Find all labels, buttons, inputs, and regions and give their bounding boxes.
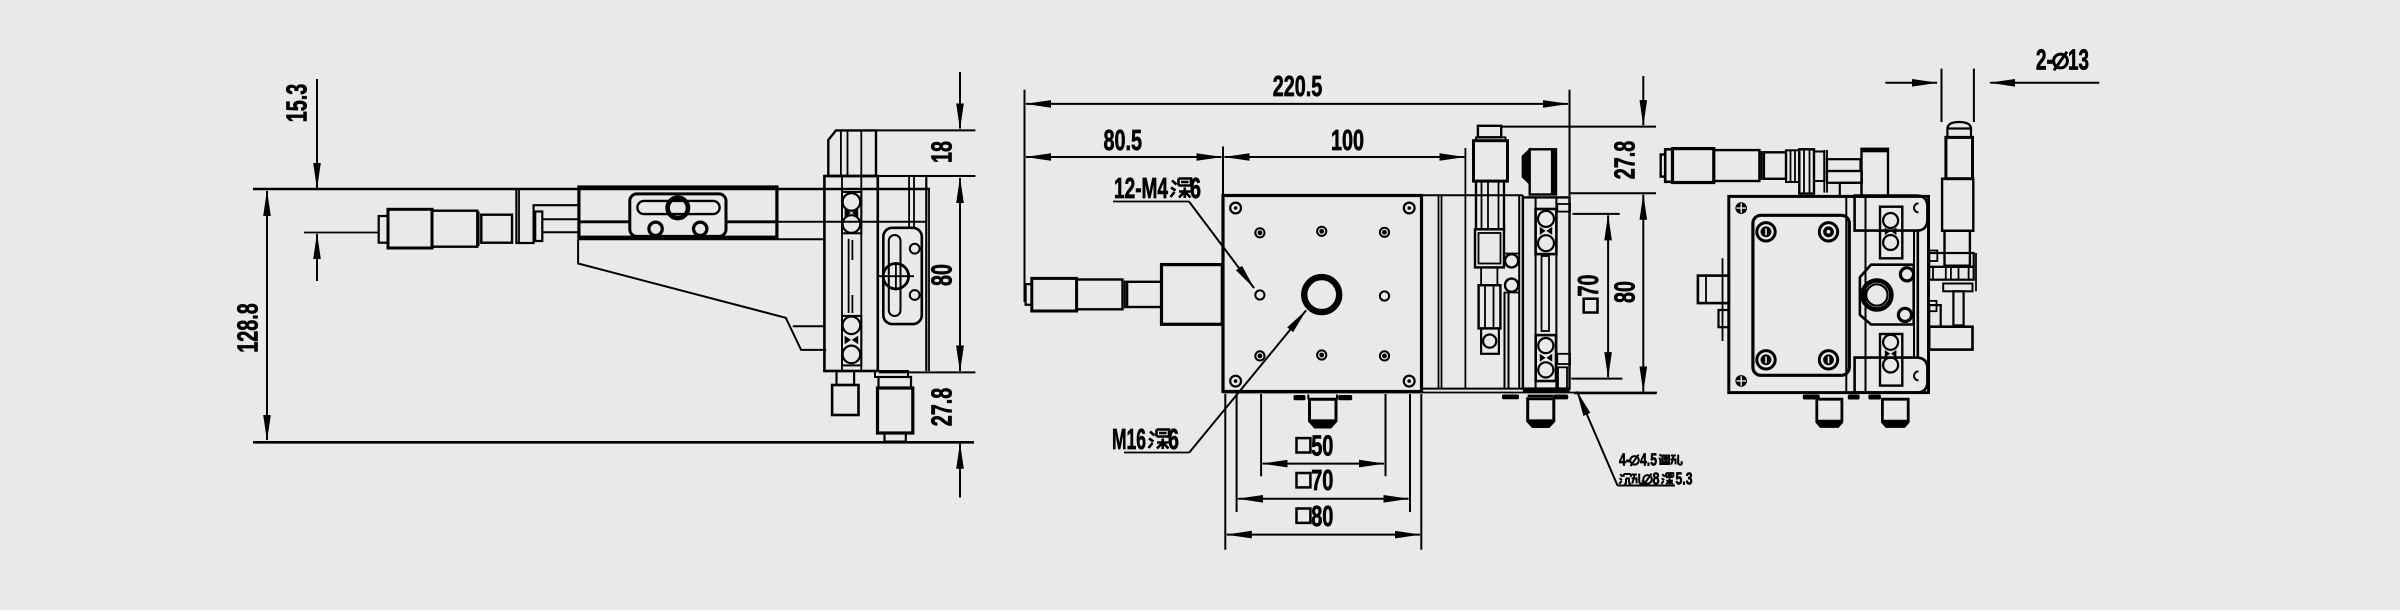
svg-text:M16: M16 [1112,424,1146,456]
M4 hole r1c3 [1380,228,1389,237]
spindle collar [535,212,542,242]
inner right wall pair [1913,231,1915,357]
leader M16 line [1189,311,1306,453]
rail block [579,187,777,237]
side bracket [1504,254,1519,293]
corner screw TL [1230,203,1241,214]
bearing ball m3 [1538,338,1553,353]
dim sq70 mid line [1607,215,1609,377]
vertical micrometer collar [1475,229,1504,267]
right side tab lower [1929,301,1937,311]
svg-text:70: 70 [1573,275,1605,297]
M4 hole r1c2 [1317,227,1326,236]
M16 center hole [1304,277,1339,312]
vertical micrometer spindle [1480,267,1482,285]
bottom micrometer neck [879,377,912,388]
leader 4-dia4.5 [1577,392,1618,486]
dim sq70 ext left [1236,394,1238,512]
micrometer mount block [1162,265,1223,325]
vertical micrometer barrel [1942,179,1973,231]
dim sq50 ext right [1385,394,1387,476]
carriage slot [637,201,719,214]
knob plate slot [889,235,901,316]
bearing ball top 1 [843,193,861,211]
corner screw TR [1404,203,1415,214]
vertical micrometer thimble [1474,141,1508,181]
housing foot [1528,399,1554,427]
svg-text:13: 13 [2068,45,2089,77]
left small tab [1719,310,1729,327]
right tab top [1557,204,1570,212]
dim sq80 [1227,534,1420,536]
leader 12-M4 line [1189,202,1254,289]
left foot knob [1817,399,1842,426]
side bracket walls [1504,292,1506,389]
left foot neck [837,371,855,385]
vertical micrometer barrel lower [1945,231,1970,266]
bearing ball m2 [1538,235,1554,251]
dim sq50 ext left [1260,394,1262,476]
bearing block top [842,192,861,233]
dim sq70 mid ext top [1573,213,1620,215]
dim ext line plate left [1222,147,1224,196]
base block inner edge pair [1438,195,1440,388]
micrometer ring [1124,281,1126,309]
spindle bar lower [1827,171,1862,183]
bearing separator m2 [1540,354,1552,362]
svg-text:4.5: 4.5 [1640,450,1657,470]
column left edges [1845,196,1847,392]
dimension 15.3 [316,79,318,281]
leader M16 underline [1124,452,1189,454]
right foot knob [1882,399,1908,426]
dim sq80 ext right [1420,394,1422,550]
bearing ball bottom 1 [843,317,861,335]
bearing separator r [1885,228,1897,236]
body square [1729,196,1929,392]
svg-text:128.8: 128.8 [232,303,264,353]
bearing ball r3 [1883,335,1898,350]
mount post [1862,149,1889,197]
svg-text:27.8: 27.8 [926,388,958,427]
bearing square top [1880,207,1902,259]
clamp edge pair [1823,150,1825,193]
svg-text:2-: 2- [2036,45,2053,77]
housing foot nub [1553,395,1568,400]
svg-text:50: 50 [1311,430,1333,462]
dim 80 mid line [1642,195,1644,392]
housing bottom band [1523,389,1570,393]
dim 220.5 line [1026,103,1568,105]
cjk shen 1 [1171,179,1192,199]
knurl row [1929,267,1974,280]
spindle housing verticals [908,176,910,228]
bearing ball m4 [1538,362,1553,377]
boss screw top [1900,268,1913,281]
rail inner line left [579,220,630,223]
clevis pin circle [1483,335,1496,348]
bearing square bottom [1880,334,1902,386]
svg-text:80: 80 [1609,281,1641,303]
dim line left [1885,82,1937,84]
dim 80 mid ext bottom [1574,392,1657,394]
M4 hole r1c1 [1255,228,1264,237]
plate screw 4 [1819,351,1837,369]
dim 27.8 mid arrow top [1642,76,1644,125]
svg-text:6: 6 [1168,424,1179,456]
bracket top line [578,238,825,240]
micrometer barrel [432,211,477,247]
clevis block [1481,328,1499,353]
micrometer thimble [1032,278,1077,311]
bracket inner line [793,325,825,327]
top micrometer barrel [1714,150,1760,181]
corner screw BL [1230,376,1241,387]
housing rail right [1555,197,1557,388]
bearing ball top 2 [843,215,861,233]
housing foot neck [1528,395,1554,397]
base block bottom edge [1422,388,1523,390]
carriage ring [668,198,688,218]
base block left edge / ext 100 [1464,148,1466,389]
bottom micrometer body [878,388,913,433]
L bracket small [1929,305,1941,327]
dim 220.5 ext right [1569,90,1571,196]
rail inner line right [726,220,777,223]
micrometer sleeve [481,215,512,243]
dim 27.8 extension [879,371,975,373]
top micrometer thimble [1673,149,1714,183]
knob plate [883,228,922,324]
dim sq70 mid ext bottom [1571,378,1622,380]
dim 18 extension bottom [855,175,975,177]
dim 18 arrow top [959,72,961,129]
dim 27.8 arrow top [959,325,961,371]
top plate line [777,221,926,223]
cjk shen 2 [1149,430,1170,450]
bearing ball r4 [1883,358,1898,373]
plate foot [1310,399,1337,427]
bearing ball r2 [1883,235,1898,250]
bearing separator top [845,209,859,218]
carriage screw left [649,222,662,235]
top clamp block [1855,196,1928,231]
foot nub 1 [1803,395,1820,400]
mount post cap [1862,149,1889,153]
vertical micrometer lip [1476,137,1506,140]
top clamp middle [1530,149,1556,194]
ext line left [1941,69,1943,122]
stage plate [1223,196,1422,392]
plate foot neck [1308,398,1337,400]
corner screw BL [1735,375,1747,387]
label counterbore line2 [1619,474,1631,484]
micrometer thimble [388,209,432,248]
knob plate screw bottom [910,290,920,300]
dim sq80 ext left [1224,394,1226,550]
left foot [832,385,858,415]
knob plate screw top [910,244,920,254]
corner screw TL [1735,202,1747,214]
dim 80.5 [1026,156,1222,158]
dim sq50 [1263,463,1384,465]
hex boss plate [1860,265,1914,325]
bearing ball r1 [1883,213,1898,228]
right edge piece [1975,253,1977,291]
svg-text:70: 70 [1311,465,1333,497]
dim sq70 [1238,498,1408,500]
svg-text:220.5: 220.5 [1273,71,1323,103]
bearing block bottom [842,316,861,366]
svg-text:15.3: 15.3 [281,84,313,123]
inner plate [1753,215,1849,375]
housing left edge pair [1518,195,1520,388]
right tab bottom [1557,354,1570,364]
carriage screw right [694,222,707,235]
bearing ball bottom 2 [843,346,861,364]
svg-text:80.5: 80.5 [1104,125,1143,157]
bearing housing [1523,197,1570,388]
ext line right [1973,69,1975,122]
dim 27.8 mid ext bottom [1570,192,1657,194]
top clamp [828,130,876,176]
bearing separator m [1540,227,1552,235]
bottom clamp block [1855,358,1928,393]
bearing slot middle [848,239,850,313]
vertical micrometer cap [1478,126,1501,138]
bracket outline [578,239,826,350]
spindle lines [542,218,579,220]
dim sq70 ext right [1409,394,1411,512]
M4 hole r3c2 [1317,350,1326,359]
dim 27.8 arrow bottom [959,444,961,498]
clamp piece 2 [1814,152,1824,182]
svg-text:18: 18 [926,141,958,163]
svg-text:4-: 4- [1619,450,1630,470]
bearing column rails [841,176,843,371]
micrometer sleeve [1127,282,1161,307]
svg-text:12-M4: 12-M4 [1114,173,1168,205]
top micrometer sleeve [1764,152,1786,179]
housing bearing block bottom [1536,335,1556,381]
vertical micrometer thimble [1946,137,1973,178]
boss ring [1862,281,1891,310]
svg-text:5.3: 5.3 [1676,469,1693,489]
side screw 1 [1505,254,1518,267]
top micrometer clamp [1799,149,1814,193]
svg-text:80: 80 [926,264,958,286]
main block [824,176,877,371]
bottom micrometer tip [885,433,906,442]
spindle down [1953,291,1963,325]
svg-text:100: 100 [1331,125,1364,157]
plate foot nub left [1294,395,1306,400]
bottom reference line [1223,392,1657,394]
housing rail left [1535,197,1537,388]
micrometer taper ring [478,212,480,247]
housing left nub [1502,395,1519,400]
L bracket foot [1929,327,1972,350]
left knob [1698,276,1729,304]
vertical micrometer cap [1947,129,1971,138]
foot nub 3 [1868,395,1881,400]
spindle bar [1827,159,1861,171]
micrometer stylus line [304,232,379,234]
micrometer barrel [1077,280,1123,310]
micrometer end cap [1026,284,1032,305]
right side tab upper [1929,251,1938,262]
M4 hole r2c1 [1255,290,1264,299]
housing slot middle [1542,256,1550,331]
plate foot nub right [1338,395,1352,400]
side screw 2 [1505,279,1518,292]
plate screw 2 [1819,223,1837,241]
right clamp tab [1558,367,1567,389]
M4 hole r2c3 [1380,291,1389,300]
dim 18 extension top [876,129,975,131]
top micrometer collar [1786,150,1799,182]
leader underline [1618,485,1676,487]
dim 220.5 ext left [1024,90,1026,302]
svg-text:6: 6 [1190,173,1201,205]
bottom micrometer flange [875,371,908,377]
bearing ball m1 [1538,211,1554,227]
dimension 128.8 [266,191,268,440]
lower plate [1943,284,1972,292]
leader 12-M4 underline [1113,201,1189,203]
top micrometer ring [1761,151,1763,180]
datum top line [253,188,930,191]
M4 hole r3c3 [1380,351,1389,360]
clamp arm [1929,253,1974,267]
housing bearing block top [1536,209,1557,254]
clamp notch bottom [1914,371,1919,380]
svg-text:27.8: 27.8 [1609,141,1641,180]
bearing separator bottom [845,336,859,345]
top micrometer end cap [1661,155,1666,177]
carriage plate [630,194,726,237]
knob cross screw [883,264,908,289]
corner screw BR [1404,376,1415,387]
dim 100 [1225,156,1465,158]
dim 27.8 mid ext top [1501,126,1657,128]
top micrometer cap ring [1665,149,1672,182]
M4 hole r3c1 [1255,351,1264,360]
dim line right [1990,82,2099,84]
boss screw bottom [1898,308,1911,321]
ground line [253,441,974,444]
svg-text:80: 80 [1311,501,1333,533]
dim 80 left view [959,178,961,371]
step block [1840,183,1862,197]
vertical micrometer dome [1947,122,1971,129]
left bracket line [1722,258,1724,341]
clevis fork [1479,285,1501,328]
bearing separator r2 [1885,350,1897,358]
clamp notch top [1914,203,1919,212]
foot nub 2 [1848,395,1860,400]
micrometer mount bracket [516,189,579,243]
plate screw 1 [1757,223,1775,241]
body right edge lines [925,176,927,371]
micrometer end cap [379,216,388,243]
base block top edge [1422,194,1523,196]
vertical micrometer barrel [1476,181,1504,229]
plate screw 3 [1757,351,1775,369]
